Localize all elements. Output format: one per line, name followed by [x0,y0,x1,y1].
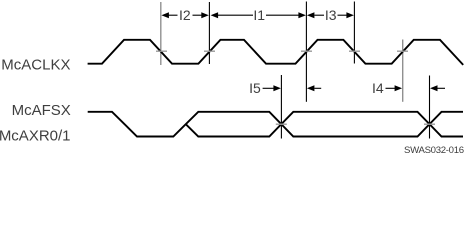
svg-text:I3: I3 [325,7,337,23]
mid-level tick at X2 [424,123,435,125]
reference line T6 (data transition X1) [280,75,282,139]
McAFSX / McAXR0/1 data waveform main trace [88,112,463,137]
svg-text:I1: I1 [253,7,265,23]
reference line T1 (gray, McACLKX falling edge 1) [160,2,162,65]
mid-level tick at T2 [204,50,215,52]
reference line T4 (McACLKX falling edge 3) [353,2,355,64]
reference line T2 (McACLKX rising edge 2) [208,2,210,64]
dimension I2 left arrow [168,14,178,16]
mid-level tick at T5 [397,50,408,52]
svg-text:SWAS032-016: SWAS032-016 [404,145,464,155]
dimension I3 left arrow [307,12,315,18]
reference line T3 (McACLKX rising edge 3) [305,2,307,102]
McACLKX clock waveform [88,40,464,65]
mid-level tick at T3 [301,50,312,52]
dimension I2 right arrow [193,14,203,16]
mid-level tick at X1 [276,123,287,125]
dimension I5 right arrow [307,85,315,91]
dimension I3 right arrow [338,14,348,16]
svg-text:McAFSX: McAFSX [12,102,71,119]
svg-text:I2: I2 [179,7,191,23]
dimension I1 left arrow [211,12,219,18]
reference line T7 (data transition X2) [429,76,431,139]
svg-text:I5: I5 [249,80,261,96]
mid-level tick at T1 [156,50,167,52]
dimension I1 right arrow [266,14,299,16]
svg-text:I4: I4 [372,80,384,96]
data waveform second rail [186,112,463,137]
reference line T5 (gray, McACLKX rising edge 4) [402,40,404,102]
svg-text:McAXR0/1: McAXR0/1 [0,128,71,145]
dimension I5 left arrow [263,87,274,89]
svg-text:McACLKX: McACLKX [1,57,70,74]
mid-level tick at T4 [349,50,360,52]
dimension I4 right arrow [430,85,438,91]
dimension I4 left arrow [386,87,396,89]
